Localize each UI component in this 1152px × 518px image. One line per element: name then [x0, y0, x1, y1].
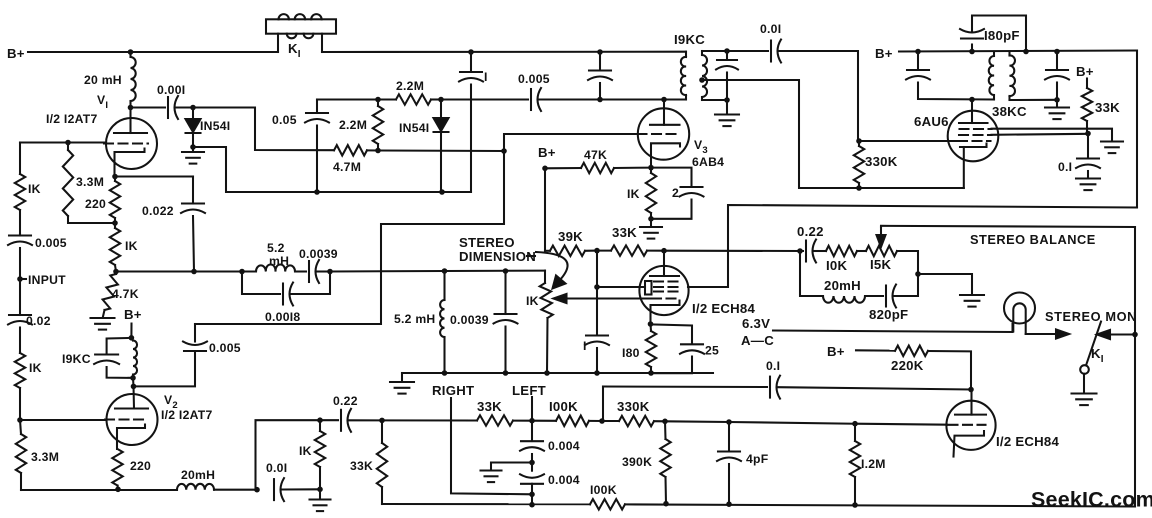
- node 0.22/20mH left: [797, 248, 803, 254]
- label 0.05: [272, 113, 297, 127]
- label 0.005 (coupling): [518, 72, 550, 86]
- svg-text:0.05: 0.05: [272, 113, 297, 127]
- node 1K/4.7K junction: [113, 269, 119, 275]
- capacitor 0.0039 (shunt): [494, 271, 518, 373]
- tube U3 grid1 (dashed): [958, 140, 991, 142]
- relay K1 coil loops bottom: [287, 34, 314, 39]
- label 4.7M: [333, 160, 361, 174]
- label 0.0018: [265, 310, 300, 324]
- node V3 grid tie: [501, 148, 507, 154]
- resistor 220 (V2 cathode): [112, 449, 122, 489]
- node V2 plate: [131, 384, 137, 390]
- svg-text:mH: mH: [269, 254, 289, 268]
- tube V2 envelope: [107, 394, 158, 445]
- label 33K (shunt): [350, 459, 373, 473]
- node 38KC sec bottom: [1054, 97, 1060, 103]
- svg-text:IK: IK: [29, 361, 42, 375]
- inductor 5.2mH (shunt): [440, 271, 444, 373]
- node V3 plate: [661, 97, 667, 103]
- inductor 5.2mH (series): [242, 265, 306, 272]
- node 19KC tank bottom: [130, 375, 136, 381]
- resistor 1K (input top): [15, 143, 25, 235]
- svg-text:2.2M: 2.2M: [339, 118, 367, 132]
- svg-text:20mH: 20mH: [181, 468, 215, 482]
- wire riser to 0.22 row: [256, 420, 321, 490]
- node U1 cathode: [648, 321, 654, 327]
- switch K1 blade: [1087, 322, 1102, 365]
- svg-text:0.0I: 0.0I: [760, 22, 781, 36]
- resistor 220K: [856, 346, 971, 390]
- label 47K: [584, 148, 607, 162]
- tube V1 1/2 12AT7 envelope: [106, 118, 157, 169]
- label 1N541 (CR1): [200, 119, 230, 133]
- node 33K top: [379, 418, 385, 424]
- wire to V3 grid: [504, 134, 637, 151]
- svg-text:I5K: I5K: [870, 257, 891, 272]
- node 2.2M top: [375, 97, 381, 103]
- svg-text:0.02: 0.02: [26, 314, 51, 328]
- capacitor 0.005 (V2 plate): [134, 324, 208, 386]
- svg-text:3.3M: 3.3M: [31, 450, 59, 464]
- svg-text:STEREO BALANCE: STEREO BALANCE: [970, 232, 1096, 247]
- wire row y271 to pot: [330, 270, 545, 273]
- svg-text:B+: B+: [875, 46, 893, 61]
- label B+ (33K): [1076, 64, 1094, 79]
- node U1 plate: [661, 248, 667, 254]
- svg-text:4.7K: 4.7K: [112, 287, 139, 301]
- label 33K (screen): [1095, 100, 1120, 115]
- svg-text:LEFT: LEFT: [512, 383, 546, 398]
- wire center tap to 6AU6 cathode bus: [702, 80, 964, 188]
- label 0.02: [26, 314, 51, 328]
- resistor 220 (V1 cathode): [110, 177, 120, 224]
- node screen/0.1: [1085, 131, 1091, 137]
- transformer 38KC primary: [989, 52, 994, 100]
- label RIGHT: [432, 383, 474, 398]
- label 5.2 mH (shunt): [394, 312, 435, 326]
- node 390K top: [662, 419, 668, 425]
- label B+ (38KC left): [875, 46, 893, 61]
- node tank bottom 0.0039: [503, 370, 509, 376]
- svg-text:A—C: A—C: [741, 333, 774, 348]
- label 2 (cap): [672, 186, 679, 200]
- node cap600 bottom: [597, 97, 603, 103]
- capacitor 19KC tank: [94, 338, 133, 378]
- node balance right: [915, 271, 921, 277]
- label 0.001: [157, 83, 185, 97]
- capacitor (19KC secondary tune): [716, 51, 738, 100]
- label 1K (interstage): [299, 444, 312, 458]
- svg-text:I/2 I2AT7: I/2 I2AT7: [46, 112, 97, 126]
- wire U1 grid right to top bus: [688, 205, 1137, 287]
- wire tank bottom rail: [402, 372, 713, 374]
- svg-text:I: I: [583, 339, 587, 353]
- node 330K top: [856, 138, 862, 144]
- label 180pF: [984, 28, 1020, 43]
- wire bottom-left rail: [21, 489, 177, 491]
- svg-text:I/2 ECH84: I/2 ECH84: [692, 301, 756, 316]
- tube U2 plate: [955, 390, 986, 415]
- node U1 grid tie: [594, 284, 600, 290]
- capacitor (tuning, 19KC primary): [588, 52, 612, 100]
- wire bottom rail: [382, 503, 590, 505]
- label 33K (U1): [612, 225, 637, 240]
- label 0.0039 (series): [299, 247, 338, 261]
- tube V2 grid (dashed): [105, 418, 149, 420]
- svg-text:V3: V3: [694, 138, 708, 156]
- node 330K bottom: [856, 185, 862, 191]
- node 0.004 mid: [529, 460, 535, 466]
- svg-text:IN54I: IN54I: [200, 119, 230, 133]
- label 4pF: [746, 452, 768, 466]
- capacitor 2 (V3 bypass): [651, 168, 704, 219]
- label A-C: [741, 333, 774, 348]
- resistor 330K (mix): [602, 416, 665, 426]
- svg-text:47K: 47K: [584, 148, 607, 162]
- node B+ (V3): [542, 166, 548, 172]
- node 0.05 bottom: [314, 189, 320, 195]
- node cap600 top: [597, 49, 603, 55]
- label 220 (V1): [85, 197, 106, 211]
- node 4pF bottom: [726, 501, 732, 507]
- wire rail y99 mid: [441, 98, 528, 100]
- arrow stereo dimension: [536, 252, 568, 289]
- wire row to 1.2M: [729, 422, 855, 424]
- label 0.01 (19KC out): [760, 22, 781, 36]
- capacitor 1 (AM reject): [459, 52, 483, 192]
- lamp STEREO MON: [1004, 293, 1035, 335]
- capacitor 1 (U1 grid): [585, 251, 609, 373]
- label 10K: [826, 258, 847, 273]
- wire V1 grid row: [20, 141, 106, 143]
- node V1 cathode: [112, 174, 118, 180]
- inductor 20mH (V1 plate choke): [131, 52, 136, 108]
- node 180pF right: [1023, 49, 1029, 55]
- svg-text:2.2M: 2.2M: [396, 79, 424, 93]
- resistor 33K (right mix): [382, 415, 532, 425]
- capacitor 0.022: [181, 177, 205, 272]
- svg-text:6AU6: 6AU6: [914, 114, 949, 129]
- svg-text:820pF: 820pF: [869, 307, 908, 322]
- node 38KC sec cap top: [1054, 49, 1060, 55]
- svg-text:IK: IK: [526, 294, 539, 308]
- label 330K (6AU6): [865, 154, 898, 169]
- svg-text:25: 25: [705, 344, 719, 358]
- wire 0.1 row left: [603, 385, 767, 388]
- label 0.1 (coupling): [766, 359, 780, 373]
- label 330K (mix): [617, 399, 650, 414]
- ground 19KC secondary: [715, 100, 739, 126]
- node 180pF left: [969, 49, 975, 55]
- svg-text:0.0I: 0.0I: [266, 461, 287, 475]
- svg-text:KI: KI: [1091, 346, 1104, 365]
- svg-text:4.7M: 4.7M: [333, 160, 361, 174]
- svg-text:B+: B+: [538, 145, 556, 160]
- resistor 2.2M (horizontal): [378, 94, 441, 104]
- node 0.01 left: [254, 487, 260, 493]
- capacitor 0.0018 (bypass): [242, 272, 330, 306]
- node 1.2M top: [852, 421, 858, 427]
- node 5.2mH vert top: [442, 268, 448, 274]
- label 0.0039 (shunt): [450, 313, 489, 327]
- tube U2 envelope (1/2 ECH84): [946, 401, 995, 450]
- node 0.022 bottom: [191, 269, 197, 275]
- label 0.004 (upper): [548, 439, 580, 453]
- wire RIGHT input: [451, 398, 532, 494]
- node RIGHT/LEFT tie: [529, 492, 535, 498]
- capacitor 180pF: [960, 16, 1026, 52]
- label 820pF: [869, 307, 908, 322]
- tube U2 cathode: [954, 431, 985, 457]
- tube U1 grid box: [645, 281, 652, 295]
- svg-text:20mH: 20mH: [824, 278, 861, 293]
- label 220 (V2): [130, 459, 151, 473]
- arrow 15K wiper: [877, 227, 886, 247]
- svg-text:20 mH: 20 mH: [84, 73, 122, 87]
- node B+ / 20mH junction: [128, 49, 134, 55]
- capacitor 0.01 (19KC out): [771, 40, 858, 142]
- wire V1 cathode row: [115, 175, 193, 177]
- svg-text:I9KC: I9KC: [674, 32, 705, 47]
- capacitor 0.004 (upper): [520, 421, 544, 463]
- transformer 19KC primary: [681, 52, 686, 100]
- resistor 180: [646, 324, 656, 373]
- svg-text:0.00I: 0.00I: [157, 83, 185, 97]
- label 1K (input top): [28, 182, 41, 196]
- svg-text:B+: B+: [1076, 64, 1094, 79]
- label 19KC (transformer): [674, 32, 705, 47]
- watermark SeekIC.com: [1031, 488, 1152, 512]
- label 3.3M (V2): [31, 450, 59, 464]
- svg-text:I/2 I2AT7: I/2 I2AT7: [161, 408, 212, 422]
- wire 0.1 riser: [602, 387, 604, 422]
- node diode CR1 top: [190, 105, 196, 111]
- wire 0.001 to diode node: [177, 106, 194, 108]
- label 3.3M (V1): [76, 175, 104, 189]
- arrow switch to bus: [1097, 330, 1135, 339]
- resistor 390K: [660, 421, 670, 503]
- wire U1 grid left: [597, 286, 645, 288]
- tube V1 plate: [114, 108, 147, 134]
- label 25: [705, 344, 719, 358]
- label 220K: [891, 358, 924, 373]
- label 1 (U1 grid cap): [583, 339, 587, 353]
- node 1K bottom (V3): [648, 216, 654, 222]
- label 180: [622, 346, 640, 360]
- label 1/2 12AT7 (V2): [161, 408, 212, 422]
- node CR2 bottom: [439, 189, 445, 195]
- resistor 10K: [826, 246, 866, 256]
- label 6AU6: [914, 114, 949, 129]
- wire LEFT input: [531, 397, 533, 421]
- label 4.7K: [112, 287, 139, 301]
- label 390K: [622, 455, 652, 469]
- ground CR1: [182, 147, 204, 164]
- resistor 330K (6AU6 grid): [854, 141, 864, 188]
- ground V3 cathode: [640, 219, 662, 239]
- ground 1K bottom: [310, 489, 331, 511]
- svg-text:I9KC: I9KC: [62, 352, 91, 366]
- svg-text:I00K: I00K: [590, 483, 617, 497]
- capacitor 0.005 (input): [8, 234, 32, 279]
- capacitor (38KC secondary tune): [1045, 52, 1069, 100]
- wire row to U2 grid: [855, 424, 947, 425]
- node 0.0039 vert top: [503, 268, 509, 274]
- node CR1 cathode: [190, 144, 196, 150]
- wire secondary bottom: [702, 99, 727, 101]
- label STEREO MON: [1045, 309, 1137, 324]
- arrow pot wiper (to U1): [554, 294, 651, 303]
- wire U1 plate row to 0.22: [664, 250, 803, 252]
- label 38KC: [992, 104, 1027, 119]
- wire 20mH to 0.01: [214, 489, 257, 491]
- capacitor 0.02: [8, 279, 32, 352]
- wire V2 plate net to V3 grid: [195, 151, 504, 324]
- capacitor 0.22 (left): [320, 409, 382, 432]
- node 220 bottom: [115, 487, 121, 493]
- wire tank to V2 plate: [132, 378, 135, 387]
- capacitor 0.0039 (series): [309, 260, 330, 283]
- tube V1 grid (dashed): [104, 142, 148, 144]
- svg-text:5.2: 5.2: [267, 241, 285, 255]
- potentiometer 15K: [866, 246, 918, 274]
- node 0.1 row tie: [599, 418, 605, 424]
- wire secondary top: [702, 50, 768, 52]
- svg-text:4pF: 4pF: [746, 452, 768, 466]
- capacitor 0.005 (coupling): [531, 88, 600, 111]
- svg-text:2: 2: [672, 186, 679, 200]
- capacitor 0.1 (screen): [1076, 134, 1100, 178]
- relay K1 coil frame: [266, 19, 336, 33]
- resistor 4.7M: [334, 145, 378, 155]
- svg-text:I0K: I0K: [826, 258, 847, 273]
- label 6.3V: [742, 316, 770, 331]
- label 2.2M (horizontal): [396, 79, 424, 93]
- ground U3 suppressor: [1101, 142, 1123, 154]
- label 0.022: [142, 204, 174, 218]
- node INPUT: [17, 276, 26, 282]
- svg-text:VI: VI: [97, 93, 108, 111]
- tube V2 grid wire: [20, 419, 106, 421]
- label V1: [97, 93, 108, 111]
- svg-text:33K: 33K: [612, 225, 637, 240]
- node secondary center tap: [699, 77, 705, 83]
- label 20mH (balance): [824, 278, 861, 293]
- relay K1 coil loops top: [279, 14, 322, 19]
- node V2 grid: [17, 417, 23, 423]
- node 3.3M top: [65, 140, 71, 146]
- svg-text:0.0039: 0.0039: [450, 313, 489, 327]
- capacitor 4pF: [717, 422, 741, 504]
- label 0.005 (input): [35, 236, 67, 250]
- label 20mH (bottom): [181, 468, 215, 482]
- svg-text:IK: IK: [299, 444, 312, 458]
- ground tank: [390, 373, 414, 394]
- label 100K (bottom): [590, 483, 617, 497]
- node V3 cathode: [648, 165, 654, 171]
- ground 0.1 screen: [1076, 179, 1100, 191]
- ground stereo balance: [918, 274, 984, 307]
- resistor 100K (mix): [532, 416, 602, 426]
- wire 15K wiper to switch bus: [881, 226, 1135, 227]
- svg-text:DIMENSION: DIMENSION: [459, 249, 536, 264]
- svg-text:B+: B+: [827, 344, 845, 359]
- node tank bottom 5.2mH: [442, 370, 448, 376]
- label STEREO: [459, 235, 515, 250]
- svg-text:IN54I: IN54I: [399, 121, 429, 135]
- capacitor 0.01 (bottom): [274, 478, 284, 501]
- node 4pF top: [726, 419, 732, 425]
- node 19KC tank top: [129, 335, 135, 341]
- capacitor 820pF: [886, 274, 918, 308]
- tube V2 plate: [115, 407, 148, 409]
- label 1 (cap): [484, 70, 488, 84]
- resistor 1.2M: [850, 424, 860, 505]
- wire U3 grid1 to 330K: [859, 140, 958, 142]
- svg-text:0.00I8: 0.00I8: [265, 310, 300, 324]
- capacitor 0.004 (lower): [520, 463, 544, 505]
- label 100K (mix): [549, 399, 578, 414]
- node tank bottom pot: [544, 370, 550, 376]
- svg-text:6.3V: 6.3V: [742, 316, 770, 331]
- wire 6.3V to lamp: [773, 324, 1013, 332]
- ground 38KC secondary: [1045, 100, 1069, 119]
- wire B+ top rail left: [28, 51, 278, 53]
- label B+ (top left): [7, 46, 25, 61]
- potentiometer 1K (stereo dimension): [540, 271, 553, 373]
- capacitor 25: [651, 324, 705, 373]
- diode 1N541 (CR2): [434, 100, 449, 193]
- svg-text:0.004: 0.004: [548, 439, 580, 453]
- label B+ (19KC): [124, 307, 142, 322]
- label DIMENSION: [459, 249, 536, 264]
- transformer 19KC secondary: [702, 51, 707, 100]
- label 33K (right mix): [477, 399, 502, 414]
- inductor 20mH (balance): [800, 251, 883, 303]
- label V2: [164, 393, 178, 411]
- label 1N541 (CR2): [399, 121, 429, 135]
- inductor 19KC tank: [131, 338, 137, 378]
- label 1K (input lower): [29, 361, 42, 375]
- label STEREO BALANCE: [970, 232, 1096, 247]
- svg-text:I00K: I00K: [549, 399, 578, 414]
- svg-text:IK: IK: [28, 182, 41, 196]
- wire 2.2M bottom to V3 tie: [378, 149, 504, 152]
- tube U2 grid (dashed): [949, 424, 986, 426]
- ground K1: [1072, 374, 1097, 405]
- resistor 1K (input lower): [15, 352, 25, 420]
- svg-text:39K: 39K: [558, 229, 583, 244]
- node secondary cap top: [724, 48, 730, 54]
- svg-text:0.005: 0.005: [35, 236, 67, 250]
- svg-text:390K: 390K: [622, 455, 652, 469]
- label K1 (switch): [1091, 346, 1104, 365]
- label 0.01 (bottom): [266, 461, 287, 475]
- label 1K (pot): [526, 294, 539, 308]
- tube V3 grid (dashed): [638, 133, 681, 135]
- tube U3 grid2 (dashed): [959, 134, 992, 136]
- svg-text:33K: 33K: [1095, 100, 1120, 115]
- svg-text:INPUT: INPUT: [28, 273, 66, 287]
- svg-text:3.3M: 3.3M: [76, 175, 104, 189]
- wire U3 grid3 to ground: [992, 129, 1113, 141]
- svg-text:STEREO: STEREO: [459, 235, 515, 250]
- label mH (series): [269, 254, 289, 268]
- svg-text:220: 220: [130, 459, 151, 473]
- tube V1 cathode: [115, 149, 145, 177]
- label 2.2M (vertical): [339, 118, 367, 132]
- svg-text:0.022: 0.022: [142, 204, 174, 218]
